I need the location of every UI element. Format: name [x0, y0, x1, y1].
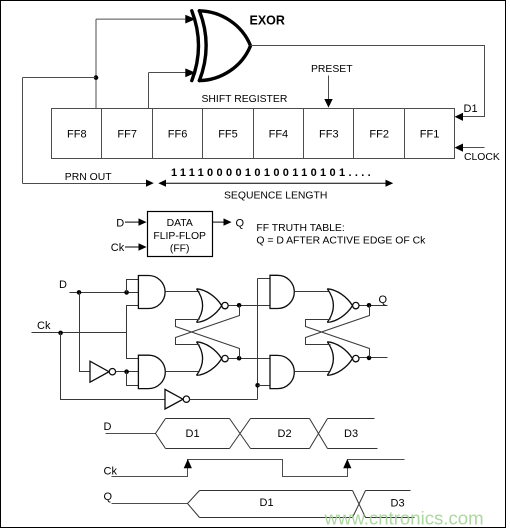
svg-text:Q: Q — [104, 491, 113, 503]
svg-text:D1: D1 — [260, 497, 274, 509]
gate: NOR G3 — [197, 289, 222, 323]
bubble of U3 — [183, 396, 189, 402]
arrowhead: PRESET — [324, 99, 332, 108]
wire: Ck into block — [125, 246, 139, 248]
wire: U2 output to G2 bottom input — [127, 372, 139, 386]
wire: cross couple G3 out to G4 input — [176, 306, 240, 345]
data flip-flop block box — [148, 212, 213, 257]
wire: PRN OUT line — [23, 183, 147, 185]
wire: G2 output to NOR G4 — [166, 371, 200, 373]
arrowhead: PRN OUT — [146, 180, 154, 187]
svg-text:FF8: FF8 — [67, 128, 87, 140]
svg-text:Q: Q — [236, 218, 245, 230]
arrowhead: Ck into block — [139, 243, 147, 250]
wire: D to AND G1 top input — [127, 280, 139, 293]
node: G3 output junction — [237, 303, 242, 308]
node: Ck junction — [58, 331, 63, 336]
gate: AND G6 — [270, 355, 294, 388]
wire: G6 output to NOR G8 — [295, 371, 330, 373]
svg-text:www.cntronics.com: www.cntronics.com — [324, 508, 484, 529]
wire: D into block — [125, 221, 139, 223]
wire: Ck down to bottom inverter — [61, 333, 166, 400]
wire: Q D3 segment rails — [366, 491, 415, 518]
wire: D3 segment rails — [328, 419, 378, 449]
inverter U3 (clock inverter) — [165, 389, 183, 409]
arrowhead: D into block — [139, 218, 147, 225]
svg-text:FF3: FF3 — [319, 128, 339, 140]
svg-text:1111000010100110101....: 1111000010100110101.... — [171, 167, 374, 179]
wire: cross couple G4 out to G3 input — [176, 320, 240, 359]
arrowhead: XOR top input — [185, 15, 195, 24]
wire: Ck line — [32, 332, 127, 334]
wire: Q output — [360, 305, 388, 307]
wire: D2 segment rails — [251, 419, 310, 449]
node: D junction 2 — [124, 290, 129, 295]
gate: EXOR U1 — [192, 11, 251, 81]
shift register box — [52, 109, 455, 159]
node: Qbar junction — [367, 356, 372, 361]
wire: G3 output to AND G5 — [229, 305, 270, 307]
arrowhead: Q out of block — [224, 218, 232, 225]
node: bus junction to G6 — [255, 383, 260, 388]
wire: D down to inverter U2 input — [80, 293, 90, 372]
svg-text:FLIP-FLOP: FLIP-FLOP — [153, 231, 206, 242]
wire: bus to AND G6 bottom input — [258, 385, 270, 387]
svg-text:Q: Q — [379, 294, 388, 306]
wire: XOR top input from shift register FF8 tap — [96, 19, 187, 108]
svg-text:Ck: Ck — [104, 466, 118, 478]
wire: Q timing split — [188, 491, 200, 518]
svg-text:D2: D2 — [278, 428, 292, 440]
wire: Qbar output — [360, 357, 388, 359]
gate: NOR G7 — [327, 289, 352, 323]
wire: D timing split — [156, 419, 166, 449]
wire: Ck timing waveform — [112, 460, 405, 477]
wire: D line — [70, 292, 139, 294]
register cell dividers — [102, 109, 405, 159]
svg-text:PRESET: PRESET — [311, 64, 353, 75]
wire: D timing lead-in — [106, 433, 156, 435]
svg-text:EXOR: EXOR — [250, 14, 285, 28]
wire: U2 output to AND G2 — [116, 371, 139, 373]
svg-text:FF5: FF5 — [218, 128, 238, 140]
wire: G5 output to NOR G7 — [295, 291, 330, 293]
gate: NOR G8 — [327, 342, 352, 376]
gate: AND G5 — [270, 275, 294, 308]
wire: D crossover 1 — [230, 419, 251, 449]
svg-text:SEQUENCE LENGTH: SEQUENCE LENGTH — [224, 190, 327, 201]
wire: G4 output to AND G6 — [229, 358, 270, 360]
arrowhead: Ck rising edge 1 — [184, 459, 192, 468]
svg-text:D: D — [116, 218, 124, 230]
svg-text:Q = D AFTER ACTIVE EDGE OF Ck: Q = D AFTER ACTIVE EDGE OF Ck — [256, 236, 426, 247]
svg-text:FF7: FF7 — [117, 128, 137, 140]
svg-text:Ck: Ck — [111, 242, 125, 254]
svg-text:D: D — [104, 421, 112, 433]
svg-text:CLOCK: CLOCK — [464, 152, 500, 163]
svg-text:FF6: FF6 — [168, 128, 188, 140]
wire: Q D1 segment rails — [200, 491, 353, 518]
bubble of G8 — [353, 355, 359, 361]
arrowhead: sequence left — [158, 180, 166, 187]
wire: U3 output to clock bus — [190, 399, 258, 401]
arrowhead: XOR bottom input — [185, 68, 195, 77]
svg-text:FF TRUTH TABLE:: FF TRUTH TABLE: — [256, 223, 344, 234]
arrowhead: D1 into register — [455, 113, 463, 121]
svg-text:DATA: DATA — [167, 218, 193, 229]
wire: feedback from junction to PRN OUT branch — [23, 78, 96, 184]
gate: AND G1 — [138, 276, 165, 309]
wire: XOR output to D1 input of FF1 — [251, 46, 485, 117]
wire: G1 output to NOR G3 — [166, 291, 200, 293]
svg-text:Ck: Ck — [37, 320, 51, 332]
wire: bus to AND G5 top input — [258, 278, 270, 280]
wire: Q timing lead-in — [112, 503, 188, 505]
svg-text:FF4: FF4 — [269, 128, 289, 140]
node: junction dot on FF8 tap feedback — [94, 75, 99, 80]
svg-text:(FF): (FF) — [170, 244, 190, 255]
wire: D1 segment rails — [166, 419, 230, 449]
inverter U2 (D inverter) — [90, 361, 109, 382]
node: G4 output junction — [237, 356, 242, 361]
wire: G1 bottom input down to Ck tap and AND G2 top input — [127, 306, 139, 359]
wire: cross couple G7 out to G8 input — [306, 306, 370, 345]
wire: CLOCK input — [462, 147, 485, 149]
wire: Q crossover — [353, 491, 366, 518]
gate: NOR G4 — [197, 342, 222, 376]
svg-text:SHIFT REGISTER: SHIFT REGISTER — [202, 94, 288, 105]
wire: XOR bottom input from FF7 tap — [149, 73, 187, 109]
svg-text:FF2: FF2 — [369, 128, 389, 140]
wire: sequence length double arrow — [160, 182, 392, 184]
svg-text:D: D — [59, 279, 67, 291]
node: U2 output junction — [124, 369, 129, 374]
bubble of G4 — [222, 355, 228, 361]
bubble of G3 — [222, 302, 228, 308]
wire: clock bus vertical — [257, 279, 259, 400]
node: D junction 1 — [77, 290, 82, 295]
svg-text:D1: D1 — [464, 103, 478, 115]
gate: AND G2 — [138, 355, 165, 388]
svg-text:D3: D3 — [344, 428, 358, 440]
bubble of U2 — [109, 369, 115, 375]
arrowhead: Ck rising edge 2 — [343, 459, 351, 468]
arrowhead: CLOCK — [455, 144, 463, 152]
svg-text:D1: D1 — [186, 428, 200, 440]
arrowhead: sequence right — [386, 180, 394, 187]
wire: D crossover 2 — [310, 419, 328, 449]
wire: PRESET arrow into FF3 — [328, 76, 330, 100]
svg-text:PRN OUT: PRN OUT — [65, 172, 112, 183]
wire: cross couple G8 out to G7 input — [306, 320, 370, 358]
node: Q junction — [367, 303, 372, 308]
wire: Q out of block — [212, 221, 224, 223]
svg-text:FF1: FF1 — [420, 128, 440, 140]
bubble of G7 — [353, 302, 359, 308]
